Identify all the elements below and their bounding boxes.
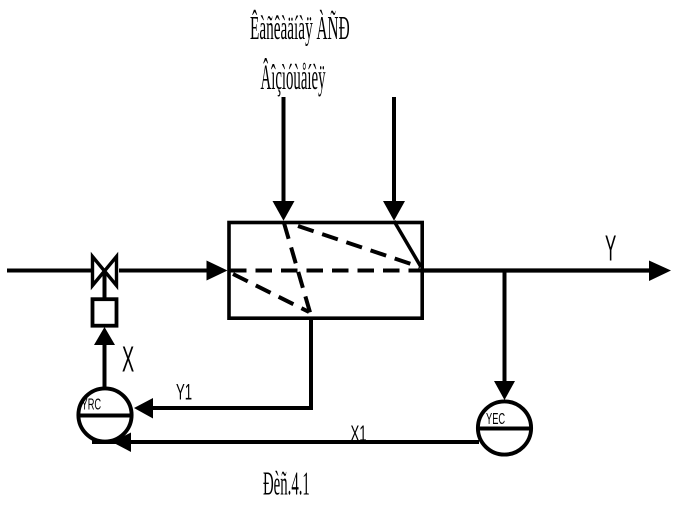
wire: input arrow into box: [119, 269, 210, 273]
valve (bowtie): [93, 257, 117, 286]
svg-text:Êàñêàäíàÿ ÀÑÐ: Êàñêàäíàÿ ÀÑÐ: [250, 9, 350, 46]
arrowhead into YEC: [494, 381, 515, 400]
wire: Y1 feedback from box bottom: [150, 320, 311, 408]
wire: valve stem: [103, 271, 107, 299]
svg-text:X1: X1: [351, 422, 367, 446]
svg-text:Y1: Y1: [176, 380, 192, 404]
chord in YEC: [478, 427, 532, 431]
wire: stem from YRC up to arrowhead: [103, 344, 107, 388]
disturbance arrow 1: [282, 97, 286, 204]
solid diagonal: disturbance2 to output point: [394, 221, 421, 267]
process box: [229, 223, 422, 319]
svg-text:Y: Y: [605, 229, 616, 269]
wire: input line left segment: [7, 269, 91, 273]
wire: X1 line from YEC to YRC: [92, 440, 479, 444]
output arrowhead: [649, 261, 671, 282]
wire: output line: [424, 268, 652, 272]
arrowhead Y1 into YRC: [134, 398, 153, 419]
wire: tap down to YEC: [503, 272, 507, 383]
arrowhead X1: [112, 433, 131, 453]
svg-text:Ðèñ.4.1: Ðèñ.4.1: [263, 465, 310, 503]
svg-text:Âîçìóùåíèÿ: Âîçìóùåíèÿ: [261, 56, 326, 97]
svg-text:X: X: [122, 340, 134, 380]
svg-text:YRC: YRC: [82, 395, 102, 413]
actuator square: [93, 299, 117, 326]
chord in YRC: [78, 414, 132, 418]
dashed horizontal channel in box: [230, 269, 422, 273]
dashed diagonal: disturbance1 to output point: [298, 226, 420, 267]
arrowhead into box: [207, 261, 228, 281]
dashed diagonal: input to bottom tap: [233, 274, 309, 312]
arrowhead up into actuator: [94, 327, 115, 345]
dashed diagonal: disturbance1 to bottom tap: [284, 223, 311, 314]
svg-text:YEC: YEC: [486, 409, 505, 427]
disturbance arrow 2: [392, 97, 396, 204]
controller YRC circle: [78, 388, 131, 441]
sensor YEC circle: [478, 401, 531, 454]
